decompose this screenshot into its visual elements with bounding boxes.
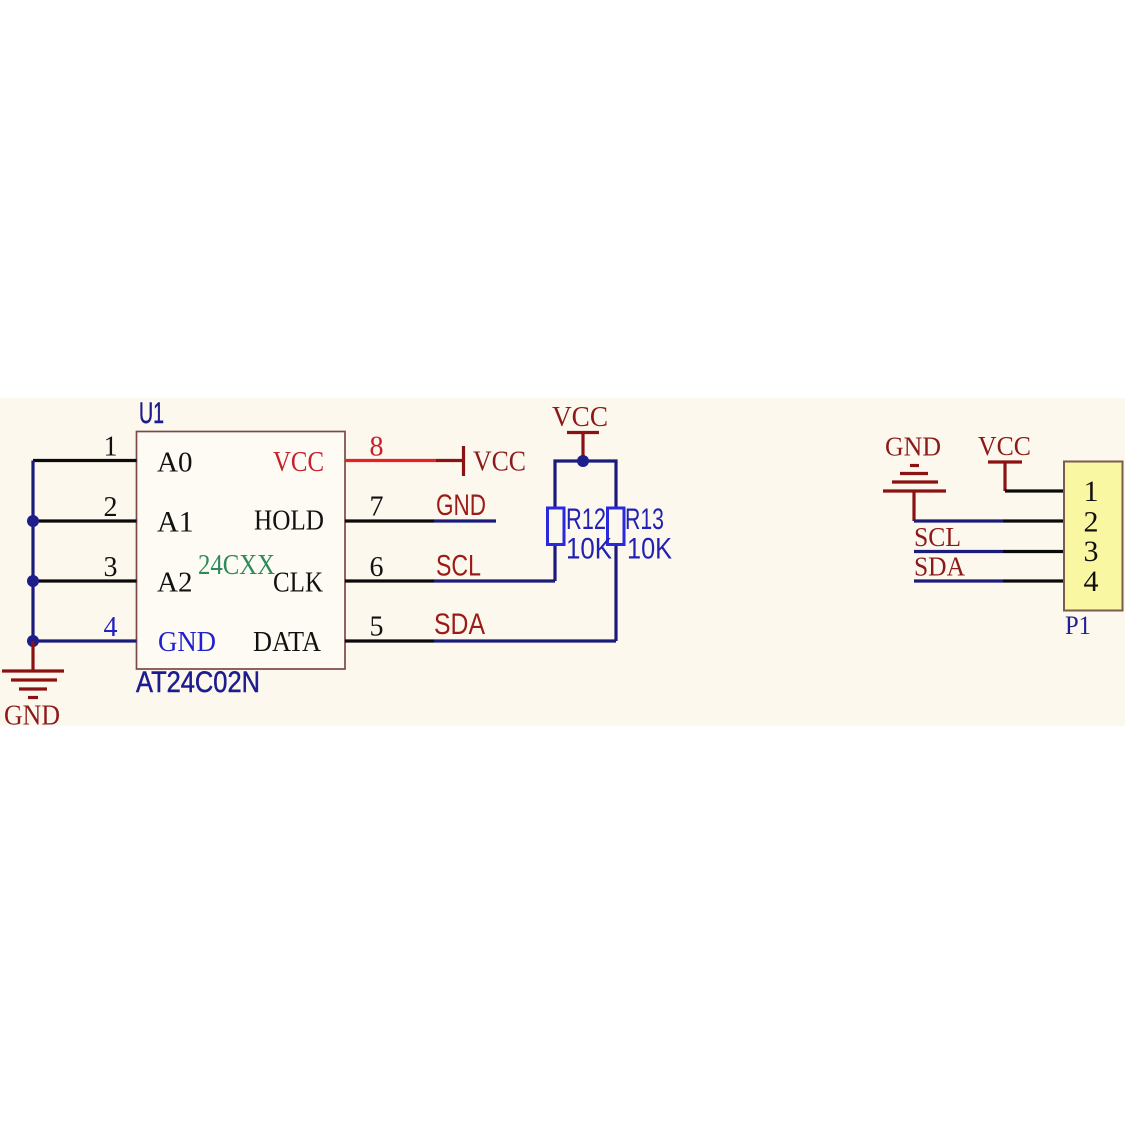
svg-text:10K: 10K — [627, 533, 672, 566]
svg-text:P1: P1 — [1065, 611, 1091, 640]
svg-text:SCL: SCL — [436, 550, 481, 583]
power port VCC right bar — [988, 462, 1022, 491]
svg-text:R12: R12 — [566, 503, 606, 536]
svg-text:A2: A2 — [157, 567, 192, 599]
power port VCC bar — [436, 446, 464, 476]
wire VCC rail to resistors — [555, 461, 616, 641]
ground symbol left — [2, 641, 64, 698]
schematic background band — [0, 398, 1125, 726]
svg-text:VCC: VCC — [978, 431, 1031, 461]
junction at pin3 — [27, 575, 39, 587]
svg-text:VCC: VCC — [473, 447, 526, 478]
svg-text:VCC: VCC — [552, 402, 608, 433]
wire pin1 — [33, 459, 137, 462]
wire P1 pin3 SCL net — [914, 550, 1003, 553]
svg-text:A0: A0 — [157, 447, 192, 479]
connector P1 body — [1064, 462, 1123, 611]
wire pin7 stub — [345, 519, 434, 522]
svg-text:1: 1 — [104, 432, 118, 463]
wire SCL net — [434, 579, 555, 582]
svg-text:2: 2 — [104, 492, 118, 523]
wire pin6 stub — [345, 579, 434, 582]
svg-text:24CXX: 24CXX — [198, 549, 275, 581]
svg-text:GND: GND — [158, 626, 216, 658]
svg-text:6: 6 — [370, 552, 384, 583]
svg-text:DATA: DATA — [253, 626, 321, 658]
svg-text:AT24C02N: AT24C02N — [136, 666, 260, 699]
svg-text:7: 7 — [370, 492, 384, 523]
wire pin2 — [33, 519, 137, 522]
wire pin3 — [33, 579, 137, 582]
wire P1 pin2 GND net — [914, 519, 1003, 522]
svg-text:4: 4 — [104, 612, 118, 643]
svg-text:4: 4 — [1084, 565, 1099, 598]
wire GND net — [434, 519, 496, 522]
wire pin5 stub — [345, 639, 434, 642]
junction at pin2 — [27, 515, 39, 527]
svg-text:SCL: SCL — [914, 522, 961, 552]
svg-text:GND: GND — [885, 432, 941, 462]
svg-text:SDA: SDA — [434, 608, 485, 641]
wire pin8 VCC (red) — [345, 459, 436, 462]
svg-text:HOLD: HOLD — [254, 505, 324, 537]
wire P1 pin1 — [1005, 489, 1064, 492]
wire pin4 — [33, 639, 137, 642]
svg-text:SDA: SDA — [914, 552, 965, 582]
wire left vertical bus — [31, 461, 34, 642]
IC U1 AT24C02N body — [137, 432, 346, 670]
svg-text:5: 5 — [370, 612, 384, 643]
svg-text:8: 8 — [370, 432, 384, 463]
svg-text:10K: 10K — [566, 533, 612, 566]
svg-text:2: 2 — [1084, 506, 1099, 539]
svg-text:GND: GND — [4, 701, 60, 732]
svg-text:CLK: CLK — [273, 567, 323, 599]
svg-text:A1: A1 — [157, 506, 194, 539]
svg-text:3: 3 — [1084, 535, 1099, 568]
svg-text:GND: GND — [436, 489, 486, 522]
wire SDA net — [434, 639, 616, 642]
svg-text:VCC: VCC — [273, 446, 324, 478]
wire P1 pin4 SDA net — [914, 579, 1003, 582]
svg-text:3: 3 — [104, 552, 118, 583]
junction VCC rail — [577, 455, 589, 467]
ground earth symbol right (flipped) — [883, 466, 946, 522]
svg-text:U1: U1 — [139, 397, 164, 430]
svg-text:R13: R13 — [625, 503, 664, 536]
svg-text:1: 1 — [1084, 475, 1099, 508]
resistor R13 — [608, 508, 625, 545]
resistor R12 — [548, 508, 565, 545]
junction at pin4 — [27, 635, 39, 647]
power port VCC top bar — [567, 433, 599, 462]
